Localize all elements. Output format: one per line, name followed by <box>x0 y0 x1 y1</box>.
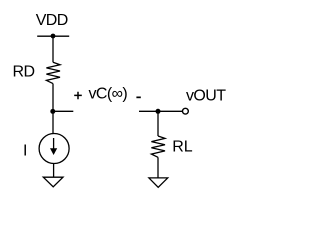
wire current source to ground <box>53 163 55 177</box>
wire VDD rail to RD top <box>52 36 54 62</box>
current source arrowhead <box>50 148 57 155</box>
polarity label - <box>136 97 140 99</box>
junction dot on VDD rail <box>51 34 56 39</box>
wire RL bottom to ground <box>157 157 159 178</box>
svg-text:vC(∞): vC(∞) <box>89 85 128 102</box>
junction dot vOUT node <box>156 109 161 114</box>
svg-text:VDD: VDD <box>36 12 68 29</box>
open terminal vOUT <box>183 108 189 114</box>
current source I circle <box>39 134 69 164</box>
svg-text:vOUT: vOUT <box>186 87 226 104</box>
wire stub capacitor right terminal to vOUT node <box>139 110 182 112</box>
resistor RD <box>46 62 60 83</box>
junction dot drain node <box>50 109 55 114</box>
svg-text:RD: RD <box>13 64 35 81</box>
wire stub capacitor left terminal <box>53 110 73 112</box>
ground (left) <box>43 177 63 187</box>
VDD supply rail bar <box>37 35 69 37</box>
svg-text:RL: RL <box>172 139 193 156</box>
svg-text:I: I <box>23 142 27 159</box>
polarity label + <box>74 92 82 100</box>
current source arrow shaft <box>53 138 55 151</box>
wire RD bottom to drain node <box>52 84 54 112</box>
ground (right) <box>149 178 168 187</box>
wire drain node to current source <box>52 111 54 134</box>
wire vOUT node to RL top <box>157 111 159 136</box>
resistor RL <box>151 136 165 157</box>
